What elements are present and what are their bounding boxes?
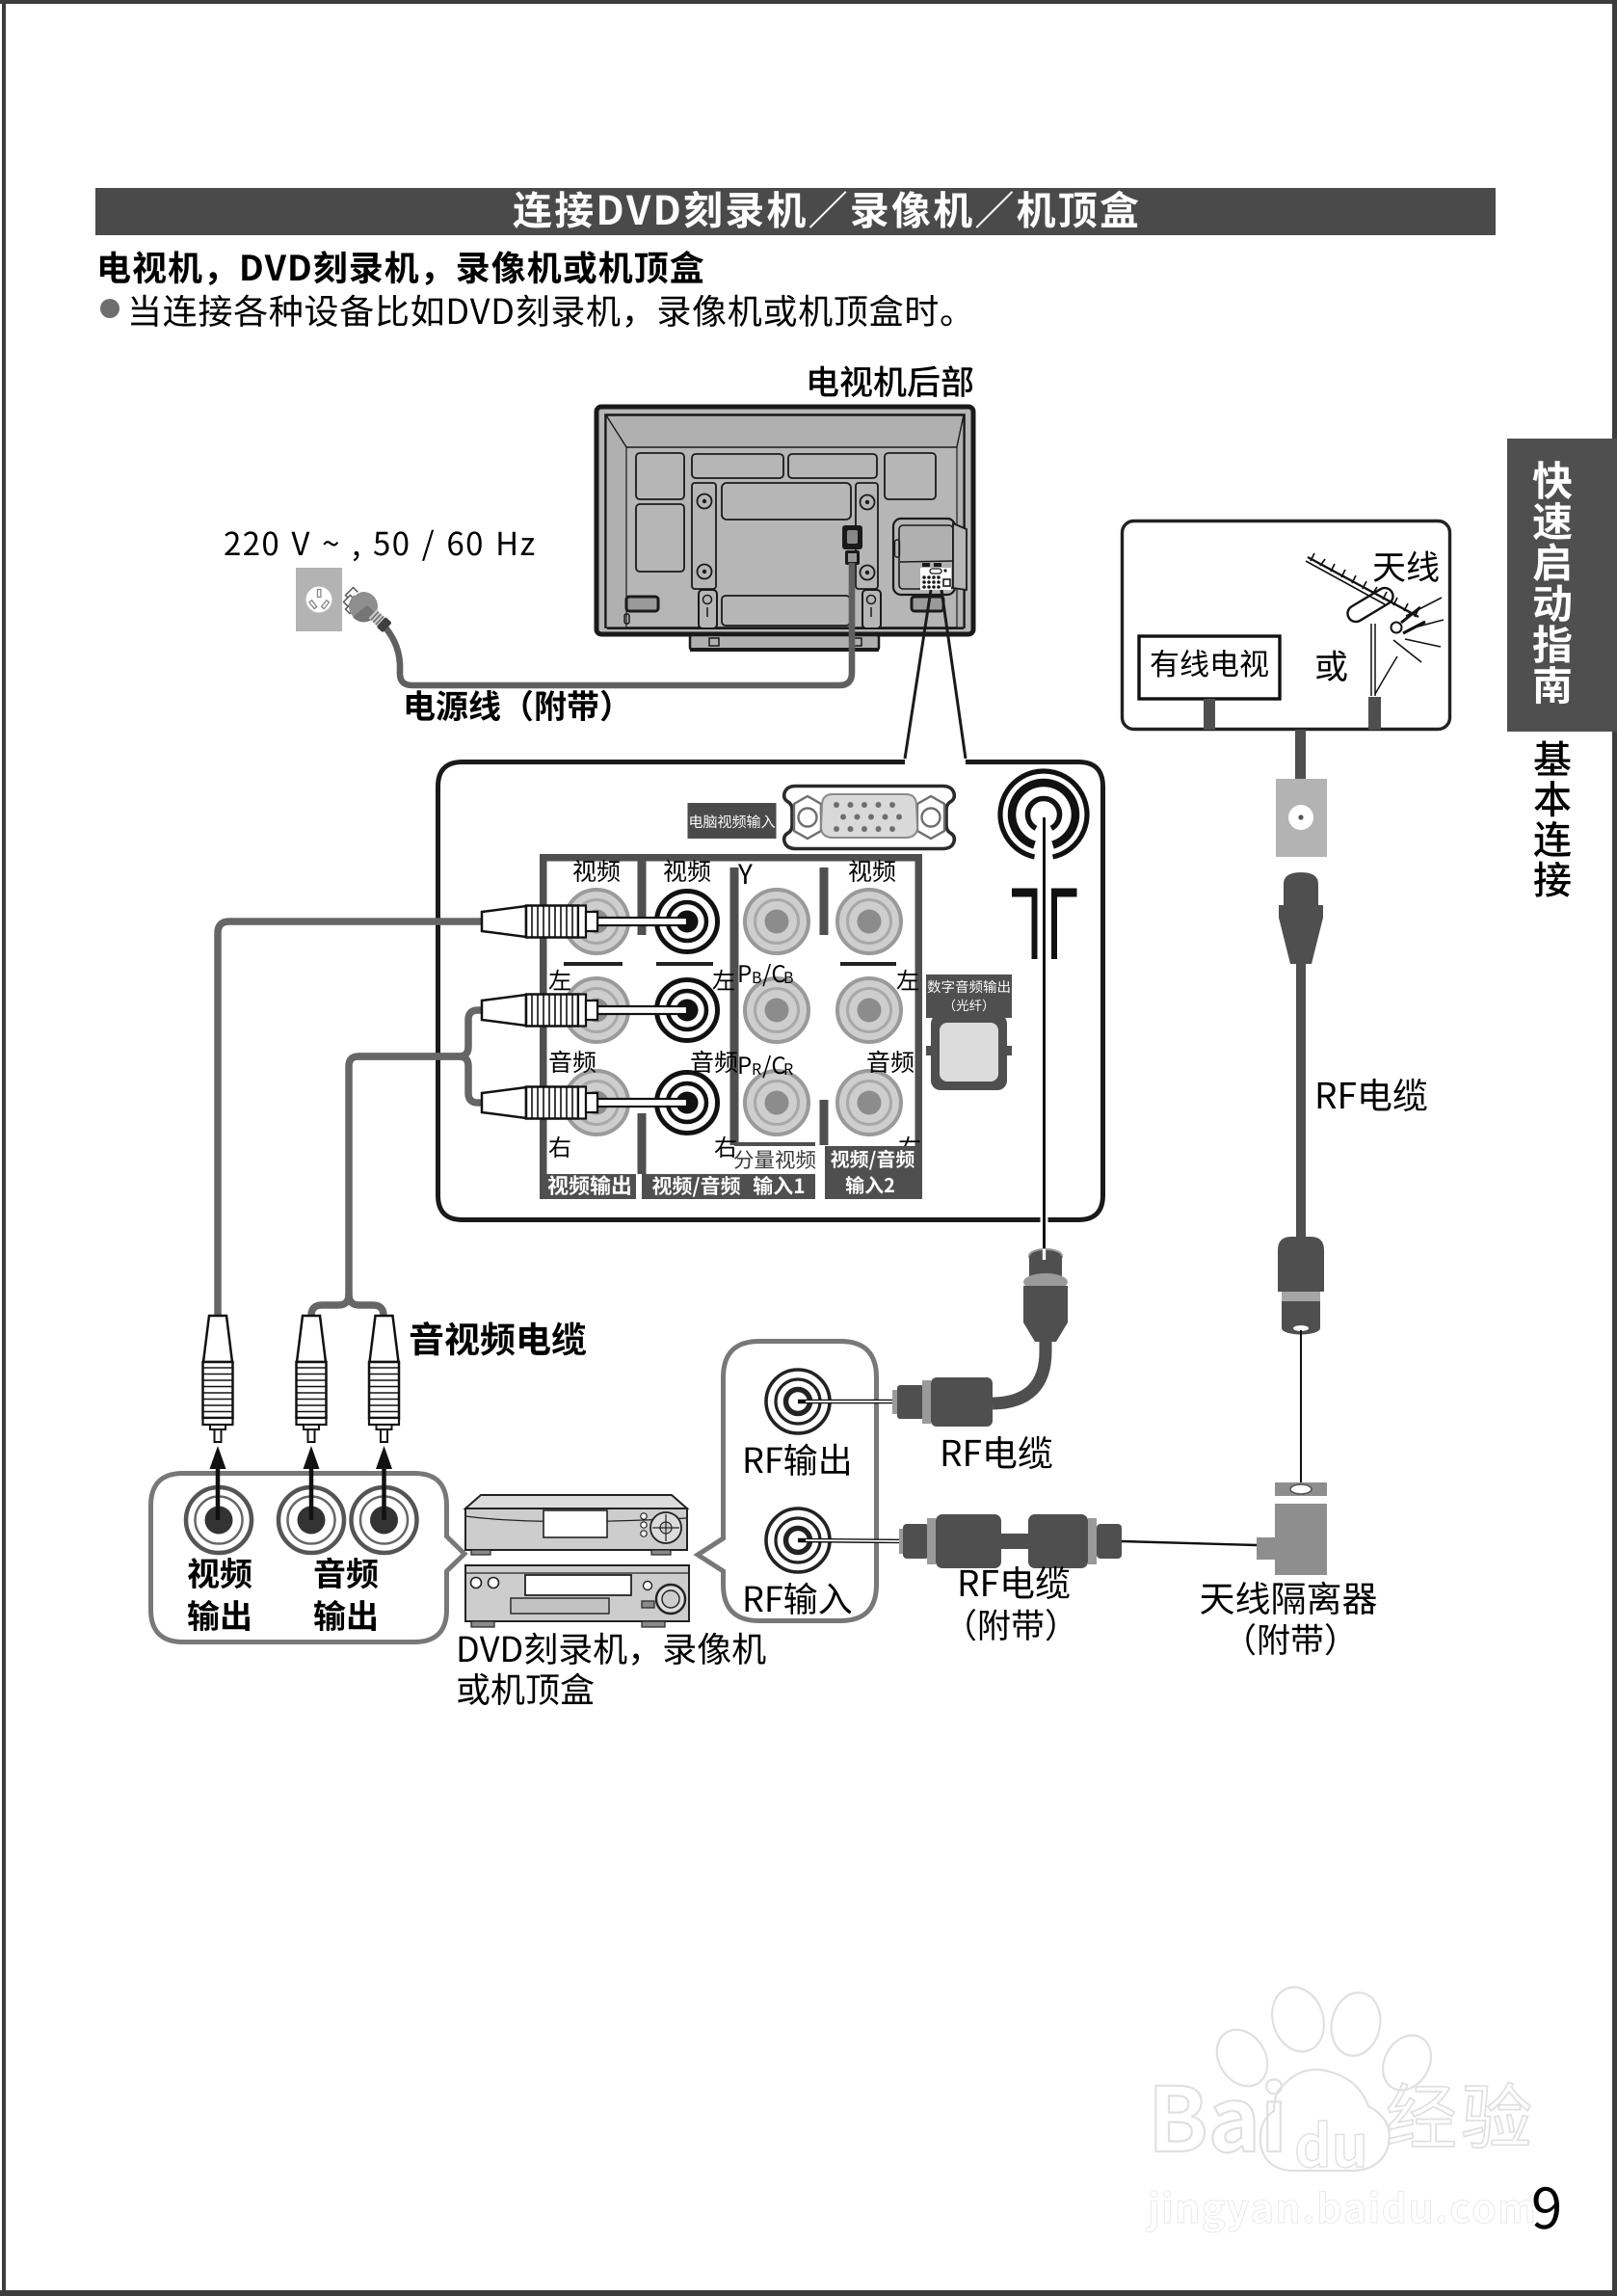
label box 视频/音频 输入1 bbox=[642, 1174, 815, 1199]
upper F connector bbox=[1284, 872, 1318, 905]
heading 电视机，DVD刻录机，录像机或机顶盒 bbox=[100, 251, 703, 285]
label RF输出 bbox=[746, 1444, 849, 1476]
label box 视频/音频 输入2 bbox=[825, 1146, 920, 1199]
audio R cable bbox=[349, 1056, 487, 1321]
DVD output bubble bbox=[151, 1474, 465, 1642]
power outlet bbox=[296, 568, 342, 631]
pin line to isolator bbox=[1300, 1330, 1302, 1483]
cable TV label box bbox=[1139, 636, 1280, 699]
power cord from outlet to TV bbox=[382, 563, 852, 685]
AV cable plug audio-L (down) bbox=[297, 1316, 327, 1442]
side label 基本连接 bbox=[1534, 740, 1571, 775]
AV plug into video input1 bbox=[482, 906, 687, 938]
TV rear illustration bbox=[596, 407, 973, 634]
label 音视频电缆 bbox=[411, 1322, 586, 1355]
AV cable plug audio-R (down) bbox=[369, 1316, 399, 1442]
title bar 连接DVD刻录机/录像机/机顶盒 bbox=[95, 188, 1496, 235]
RF plug into RF output bbox=[798, 1400, 901, 1404]
RF input jack bbox=[766, 1508, 830, 1572]
RF cable (included) plugs bbox=[798, 1540, 907, 1541]
VGA connector bbox=[784, 787, 955, 849]
label RF电缆 (right) bbox=[1318, 1079, 1427, 1111]
watermark paw bbox=[1206, 1981, 1441, 2171]
page number 9 bbox=[1534, 2187, 1560, 2229]
bullet text 当连接各种设备… bbox=[131, 294, 951, 327]
AV cable plug video (down) bbox=[203, 1316, 233, 1442]
bubble RCA jacks bbox=[186, 1487, 252, 1553]
side tab 快速启动指南 bbox=[1507, 439, 1617, 732]
group underlines bbox=[564, 962, 896, 966]
bullet dot bbox=[100, 299, 119, 318]
label 天线 bbox=[1373, 551, 1438, 582]
label RF电缆 (top) bbox=[943, 1436, 1052, 1469]
VCR device bbox=[465, 1565, 689, 1627]
component video bottom line bbox=[734, 1142, 815, 1146]
wall plate bbox=[1276, 779, 1327, 857]
optical connector bbox=[926, 1046, 934, 1055]
label RF输入 bbox=[746, 1583, 852, 1615]
watermark jingyan.baidu.com bbox=[1146, 2191, 1533, 2232]
label PR/CR bbox=[739, 1056, 751, 1074]
label DVD刻录机，录像机 bbox=[460, 1633, 766, 1666]
column separators bbox=[638, 861, 829, 1174]
label 天线隔离器（附带） bbox=[1201, 1582, 1376, 1615]
antenna drawing bbox=[1306, 553, 1444, 696]
cable stubs bbox=[1204, 699, 1215, 730]
insert arrows bbox=[216, 1455, 221, 1520]
audio L cable bbox=[311, 1010, 487, 1321]
VGA pins bbox=[834, 802, 839, 808]
label 数字音频输出（光纤） bbox=[926, 974, 1012, 1018]
RF output jack bbox=[766, 1370, 830, 1433]
TV terminal recess bbox=[893, 519, 955, 595]
label 或 bbox=[1316, 651, 1347, 681]
label box 视频输出 bbox=[543, 1174, 636, 1199]
RF box bbox=[698, 1342, 877, 1621]
power plug bbox=[344, 588, 358, 614]
label RF电缆（附带） bbox=[961, 1566, 1070, 1599]
antenna terminal symbol bbox=[1012, 889, 1077, 960]
AV panel rounded box bbox=[438, 762, 1103, 1220]
cable from box to wall plate bbox=[1295, 730, 1306, 780]
black RCA jacks input1 bbox=[657, 892, 718, 952]
label 电视机后部 bbox=[809, 365, 972, 397]
RF lead line bbox=[1043, 817, 1046, 1259]
AV plug into audio-L input1 bbox=[482, 995, 687, 1027]
AV plug into audio-R input1 bbox=[482, 1087, 687, 1119]
TV power connector bbox=[842, 525, 862, 549]
jack labels bbox=[573, 860, 620, 882]
watermark 经验 bbox=[1388, 2082, 1530, 2148]
label 视频 输出 bbox=[188, 1558, 252, 1589]
label 电脑视频输入 bbox=[688, 803, 777, 839]
funnel lines from TV terminal to AV panel bbox=[905, 590, 931, 759]
label 电源线（附带） bbox=[407, 690, 611, 722]
label 分量视频 bbox=[734, 1150, 815, 1169]
gray RCA jacks (video out / component / input2) bbox=[565, 890, 628, 953]
jack panel frame bbox=[540, 854, 922, 1199]
lower F connector bbox=[1278, 1237, 1324, 1292]
RF cable to TV (connector at line end) bbox=[1041, 1197, 1048, 1255]
antenna box bbox=[1123, 521, 1450, 730]
antenna isolator bbox=[1257, 1537, 1276, 1560]
DVD recorder bbox=[465, 1495, 687, 1555]
RF cable bend bbox=[993, 1339, 1046, 1403]
watermark Baidu bbox=[1155, 2079, 1282, 2152]
RF cable (right column) bbox=[1296, 962, 1306, 1239]
label PB/CB bbox=[739, 965, 751, 982]
RF antenna jack bbox=[1000, 771, 1087, 857]
video cable bbox=[218, 921, 487, 1317]
label 220 V ~ , 50 / 60 Hz bbox=[225, 530, 534, 561]
label 音频 输出 bbox=[315, 1558, 379, 1589]
